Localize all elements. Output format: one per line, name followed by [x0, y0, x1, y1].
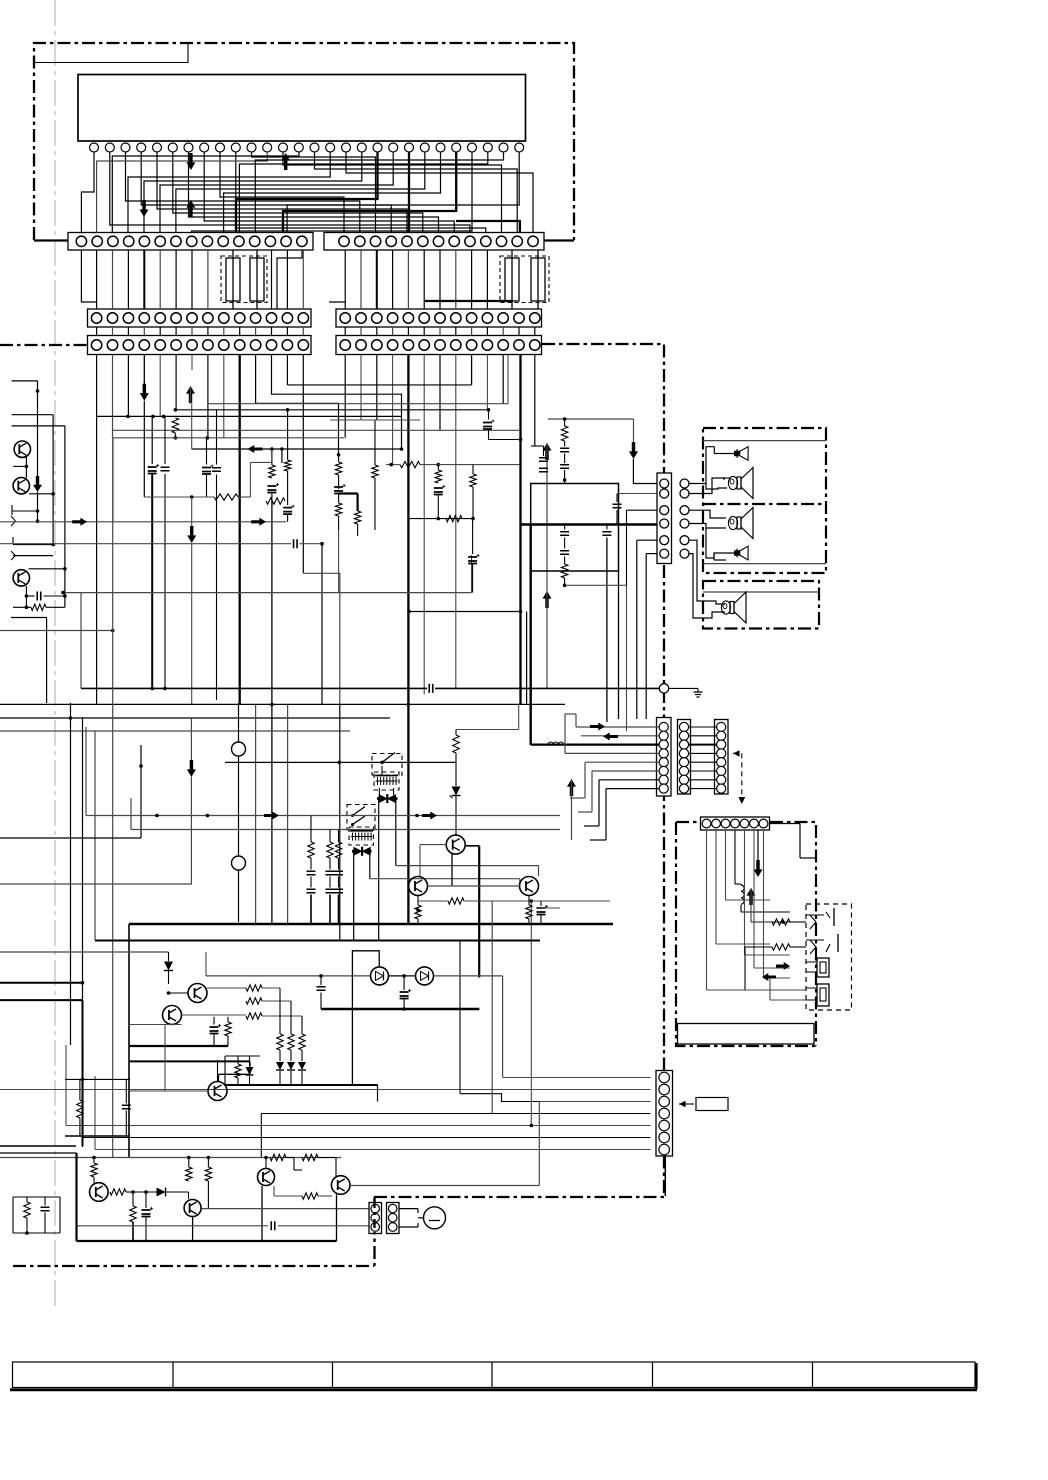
wire — [286, 1157, 294, 1159]
wire — [151, 417, 153, 465]
transistor Q10 — [446, 835, 465, 854]
label box — [696, 1098, 728, 1111]
wire — [352, 951, 379, 1085]
capacitor C38 — [317, 987, 326, 991]
diode D8 — [246, 1067, 254, 1075]
resistor R43 — [277, 1034, 283, 1050]
wire — [530, 525, 532, 745]
wire — [0, 521, 286, 523]
wire — [437, 465, 439, 470]
wire — [564, 525, 566, 530]
wire — [188, 1158, 190, 1168]
wire — [374, 420, 376, 465]
ground — [694, 692, 703, 697]
IC U101 pins — [90, 143, 99, 152]
title block table — [13, 1362, 976, 1388]
wire — [472, 519, 474, 554]
wire — [190, 717, 192, 760]
wire — [750, 888, 752, 922]
resistor R30 — [772, 919, 790, 925]
wire — [321, 1008, 479, 1010]
signal arrow up — [747, 888, 756, 905]
capacitor C2 — [161, 467, 170, 471]
pointer arrow — [679, 1103, 694, 1105]
wire — [11, 617, 47, 619]
wire — [95, 1149, 651, 1151]
resistor R37 — [448, 898, 464, 904]
resistor R12 — [470, 474, 476, 487]
signal arrow left — [248, 445, 263, 453]
capacitor C32 — [326, 871, 335, 875]
wire — [528, 896, 530, 906]
signal arrow down — [187, 760, 196, 777]
pointer arrow — [741, 753, 743, 799]
ferrite bead FB2 — [505, 258, 519, 301]
wire — [0, 1157, 341, 1159]
signal arrow down — [187, 526, 196, 543]
wire — [546, 443, 548, 591]
wire — [420, 844, 447, 846]
main board dash-dot border bottom — [13, 1265, 374, 1267]
wire — [329, 301, 345, 303]
wire — [126, 1191, 133, 1193]
jack J4 — [817, 984, 829, 1006]
capacitor C50 — [142, 1210, 151, 1217]
wire — [37, 492, 39, 521]
wire — [191, 497, 193, 526]
connector CN-L2 — [387, 1203, 400, 1234]
wire — [0, 543, 291, 545]
wire — [26, 595, 34, 597]
connector stub — [11, 516, 16, 526]
zener diode D3 — [452, 787, 461, 796]
wire — [425, 300, 513, 302]
resistor R31 — [772, 944, 790, 950]
wire — [12, 380, 38, 382]
wire harness CN-C left drops — [96, 355, 98, 705]
diode D7 — [298, 1062, 306, 1070]
wire — [690, 524, 727, 529]
wire — [310, 816, 312, 843]
wire — [182, 1014, 247, 1016]
lamp LP1 — [424, 1207, 446, 1229]
capacitor C1 — [148, 467, 157, 474]
wire — [25, 586, 27, 607]
wire — [370, 878, 520, 880]
relay RL1 — [372, 754, 402, 776]
wire — [633, 459, 657, 484]
main board dash-dot border corner — [373, 1197, 375, 1266]
capacitor C35 — [326, 889, 335, 893]
resistor-capacitor block — [65, 1078, 130, 1080]
resistor R7 — [335, 503, 341, 516]
node TP2 — [232, 856, 246, 870]
signal arrow up — [543, 591, 552, 608]
inner board outline — [678, 1024, 815, 1045]
top board dash-dot border — [34, 43, 574, 240]
wire — [565, 752, 659, 754]
wire — [338, 530, 340, 593]
wire — [706, 830, 708, 990]
capacitor C33 — [334, 871, 343, 875]
capacitor C22 — [539, 458, 548, 462]
diode D5 — [276, 1062, 284, 1070]
wire — [542, 239, 574, 241]
wire — [131, 829, 560, 831]
resistor R56 — [302, 1154, 318, 1160]
tweeter SP1 — [735, 451, 740, 455]
wire — [518, 221, 521, 233]
woofer SP2 — [728, 476, 737, 489]
wire — [715, 830, 717, 944]
capacitor C8 — [334, 487, 343, 494]
wire — [206, 475, 208, 498]
wire — [618, 571, 620, 719]
diode D1 — [379, 794, 388, 803]
wire — [427, 885, 520, 887]
resistor R44 — [288, 1034, 294, 1050]
wire — [238, 703, 240, 742]
wire — [271, 501, 273, 924]
wire — [113, 429, 519, 431]
wire — [408, 152, 410, 233]
wire — [213, 1017, 215, 1025]
wire — [206, 975, 370, 977]
signal arrow right — [251, 518, 266, 526]
transistor Q1 — [14, 441, 30, 457]
wire — [491, 901, 493, 1114]
wire — [29, 568, 65, 570]
diode D4 — [164, 962, 173, 971]
wire — [63, 592, 472, 594]
wire — [546, 591, 548, 688]
wire — [690, 510, 727, 518]
resistor R46 — [235, 1064, 241, 1078]
signal arrow down — [186, 153, 195, 170]
wire — [287, 410, 289, 460]
wire — [690, 478, 725, 494]
transistor Q15 — [208, 1082, 227, 1101]
wire — [75, 1153, 77, 1241]
resistor R52 — [130, 1206, 136, 1222]
sub board dash-dot border — [676, 821, 700, 823]
wire — [225, 1055, 260, 1057]
wire — [734, 830, 736, 884]
wire — [0, 951, 169, 953]
resistor R9 — [372, 465, 378, 478]
capacitor C39 — [400, 992, 409, 999]
capacitor C11 — [483, 423, 492, 430]
transistor Q11 — [409, 877, 428, 896]
wire — [77, 1225, 269, 1227]
wire — [633, 419, 635, 443]
resistor R50 — [91, 1163, 97, 1177]
wire — [0, 883, 192, 885]
woofer SP3 — [728, 516, 737, 529]
transistor Q20 — [90, 1183, 109, 1202]
resistor R6 — [335, 462, 341, 475]
speaker enclosure dash-dot box — [703, 428, 826, 573]
capacitor C20 — [560, 448, 569, 452]
subwoofer enclosure dash-dot box — [703, 581, 819, 629]
jack J3 — [817, 958, 829, 977]
wire — [255, 704, 257, 924]
wire — [238, 870, 240, 922]
wire — [503, 1077, 651, 1079]
resistor R45 — [299, 1034, 305, 1050]
capacitor C7 — [294, 539, 298, 548]
resistor R38 — [526, 905, 532, 919]
board outline tab — [34, 44, 188, 63]
wire — [706, 484, 727, 490]
wire — [12, 425, 65, 427]
wire — [81, 250, 96, 302]
transistor Q22 — [258, 1169, 275, 1186]
wire — [192, 1217, 194, 1241]
wire — [571, 779, 573, 840]
wire — [113, 437, 344, 439]
connector CN-B left — [88, 309, 312, 327]
wire — [745, 989, 806, 991]
wire — [399, 1208, 418, 1210]
wire — [518, 704, 520, 729]
signal arrow right — [776, 962, 790, 970]
transistor Q23 — [331, 1176, 350, 1195]
wire — [378, 799, 380, 941]
wire — [287, 384, 471, 386]
wire — [94, 731, 96, 940]
capacitor C10 — [468, 557, 477, 564]
connector plug pins — [680, 479, 689, 488]
signal arrow right — [422, 812, 437, 820]
wire — [112, 438, 114, 1158]
wire — [143, 401, 145, 497]
wire — [12, 414, 54, 416]
wire — [531, 743, 659, 745]
wire — [25, 457, 27, 478]
wire — [350, 1185, 539, 1187]
signal arrow right — [72, 518, 87, 526]
main board dash-dot border corner segment — [373, 1199, 375, 1234]
resistor R11 — [435, 470, 441, 483]
diode D6 — [287, 1062, 295, 1070]
resistor R2 — [214, 494, 238, 500]
signal arrow up — [281, 153, 290, 170]
resistor R41 — [246, 998, 262, 1004]
diode D2 — [354, 847, 363, 856]
wire — [770, 999, 806, 1001]
wire — [455, 753, 457, 786]
connector CN-C right — [336, 336, 542, 355]
wire — [664, 1156, 666, 1196]
wire — [271, 449, 273, 465]
wire — [339, 492, 358, 494]
wire — [0, 982, 83, 984]
wire — [581, 735, 659, 737]
wire — [338, 455, 340, 462]
resistor R54 — [205, 1167, 211, 1181]
wire — [175, 409, 490, 411]
wire — [592, 770, 659, 772]
wire — [790, 946, 806, 948]
wire — [417, 896, 419, 906]
wire — [129, 1060, 250, 1062]
resistor R35 — [335, 842, 341, 858]
resistor R58 — [24, 1202, 30, 1218]
wire — [144, 496, 214, 498]
wire — [565, 584, 627, 586]
capacitor C30 — [429, 684, 433, 693]
wire — [455, 730, 457, 736]
wire — [744, 830, 746, 955]
wire — [168, 952, 170, 961]
wire — [403, 976, 405, 990]
wire — [164, 474, 166, 688]
wire — [488, 429, 490, 440]
wire — [336, 1195, 338, 1242]
capacitor — [37, 592, 41, 601]
wire — [191, 404, 193, 449]
wire — [271, 492, 273, 501]
wire — [303, 573, 340, 704]
wire — [283, 152, 456, 233]
capacitor C34 — [307, 889, 316, 893]
capacitor C6 — [283, 508, 292, 514]
wire — [576, 726, 659, 728]
connector CN-D — [657, 718, 672, 797]
wire — [132, 1192, 134, 1206]
wire — [225, 1084, 378, 1086]
wire — [465, 845, 479, 847]
connector CN-A left — [68, 233, 313, 251]
wire — [606, 788, 659, 790]
wire — [330, 419, 420, 421]
resistor R20 — [561, 426, 567, 441]
capacitor C3 — [202, 468, 211, 475]
wire — [13, 1196, 60, 1198]
capacitor C24 — [613, 504, 622, 508]
wire harness CN-E to CN-F — [689, 726, 717, 728]
wire — [703, 563, 826, 565]
wire — [279, 1050, 281, 1061]
resistor R10 — [400, 461, 420, 467]
wire — [129, 1090, 208, 1092]
resistor — [31, 604, 46, 610]
wire — [13, 555, 53, 557]
wire — [192, 448, 402, 450]
wire — [190, 386, 192, 404]
wire — [77, 1240, 337, 1242]
connector CN-C left — [88, 336, 312, 355]
wire route — [256, 355, 339, 455]
resistor R4 — [266, 498, 285, 504]
resistor R32 — [453, 735, 459, 753]
wire — [217, 1060, 219, 1081]
wire — [377, 1085, 379, 1102]
signal arrow up — [567, 779, 576, 796]
wire — [438, 464, 520, 466]
wire harness IC to CN-A — [81, 152, 94, 233]
fold line — [54, 0, 56, 1308]
wire — [277, 250, 302, 309]
transistor Q3 — [13, 570, 29, 586]
connector CN-F — [715, 720, 729, 795]
wire — [0, 730, 350, 732]
resistor R53 — [186, 1167, 192, 1181]
signal arrow up — [186, 200, 195, 217]
wire — [83, 1137, 651, 1139]
tweeter SP4 — [735, 551, 740, 555]
capacitor C36 — [334, 889, 343, 893]
subwoofer SP5 — [721, 601, 730, 614]
wire — [140, 745, 142, 838]
wire route — [286, 355, 288, 385]
wire — [85, 727, 87, 816]
wire — [434, 975, 503, 977]
capacitor C5 — [267, 486, 276, 493]
wire — [790, 921, 806, 923]
signal arrow up — [543, 443, 552, 460]
connector CN-SP — [657, 473, 672, 564]
resistor R1 — [172, 418, 178, 433]
wire — [435, 687, 660, 689]
capacitor C23 — [539, 468, 548, 472]
wire harness CN-B to CN-C — [96, 327, 98, 336]
wire — [740, 884, 742, 885]
resistor R55 — [270, 1154, 286, 1160]
connector CN-B right — [336, 309, 542, 327]
wire — [169, 992, 189, 994]
wire — [472, 465, 474, 474]
wire — [690, 540, 726, 604]
wire — [616, 494, 618, 503]
IC U101 — [78, 75, 526, 142]
wire — [174, 433, 176, 438]
connector CN-H — [656, 1071, 673, 1157]
resistor R21 — [561, 564, 567, 578]
wire — [206, 438, 208, 465]
wire — [599, 779, 659, 781]
wire — [0, 1152, 77, 1154]
transistor Q21 — [184, 1200, 201, 1217]
signal arrow down — [33, 476, 42, 492]
wire — [0, 630, 113, 632]
resistor R13 — [446, 515, 462, 521]
capacitor C27 — [560, 551, 569, 555]
wire — [521, 523, 665, 525]
capacitor C26 — [560, 532, 569, 536]
capacitor C31 — [307, 871, 316, 875]
wire — [86, 815, 560, 817]
wire — [82, 717, 84, 1147]
capacitor C25 — [602, 532, 611, 536]
wire — [265, 1158, 267, 1169]
diode D10 — [157, 1188, 166, 1197]
wire — [13, 1232, 60, 1234]
wire — [753, 830, 755, 968]
wire — [274, 1195, 302, 1197]
resistor R40 — [246, 985, 262, 991]
connector CN-G — [701, 817, 770, 830]
wire — [261, 1113, 650, 1115]
wire — [93, 1158, 95, 1164]
signal arrow right — [264, 812, 279, 820]
resistor R47 — [225, 1022, 231, 1036]
wire harness CN-C right drops — [344, 355, 346, 438]
wire harness CN-A to CN-B — [96, 250, 98, 309]
wire — [386, 464, 400, 466]
wire — [225, 761, 456, 763]
